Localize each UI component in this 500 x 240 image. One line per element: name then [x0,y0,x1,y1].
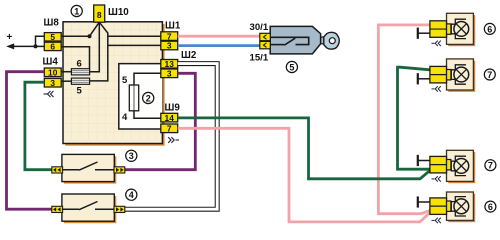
svg-text:Ш2: Ш2 [181,50,197,61]
lamp 6 bottom: bulb circle [454,199,469,214]
relay 4 left connector [52,206,63,212]
svg-text:30/1: 30/1 [250,22,269,33]
lamp 7 top: circle label 7 [484,69,495,80]
svg-text:8: 8 [97,10,102,20]
wire green Sh9-14 to right lamp low beam [178,118,430,179]
lamp 6 top: low beam icon [432,41,441,46]
lamp 6 bottom: housing [447,192,474,220]
lamp 6 top: connector tab [446,24,451,34]
lamp 7 top: connector tab [446,70,451,80]
relay 4 right connector [114,206,125,212]
wire pink top lamp A feed [378,25,430,214]
battery arrowhead [6,43,14,49]
wire purple relay3 to Sh2-3 [125,73,195,169]
svg-text:3: 3 [129,151,134,161]
svg-text:+: + [7,32,13,43]
lamp 7 bottom: ground lead [418,160,431,162]
component 4 circle label [126,189,137,200]
lamp 6 bottom: low beam icon [432,218,441,223]
relay 4 shadow [64,196,116,223]
high beam icon near Sh9 [168,137,179,143]
connector pin Sh1-7 [161,32,178,41]
wire Sh2 pin3 to fuse2 top [134,73,162,85]
connector pin Sh10-8 [94,5,105,22]
wire pin8 down to fuse6 [90,22,100,71]
svg-text:2: 2 [146,93,151,103]
wire fuse2 bottom to pin14 [134,111,162,118]
relay 3 shadow [64,156,116,183]
svg-text:5: 5 [289,62,294,72]
ignition terminal 15/1 [260,41,271,48]
lamp 6 top: bulb holder [451,19,466,38]
connector pin Sh2-13 [161,60,178,69]
lamp 7 top: bulb circle [454,67,469,82]
lamp 6 top: bulb circle [454,22,469,37]
svg-text:5: 5 [77,86,83,97]
svg-text:4: 4 [122,112,128,123]
lamp 7 top: bulb X [456,69,466,79]
junction dot [88,34,92,38]
lamp 6 top: housing [447,13,474,44]
key hole [329,38,335,44]
svg-text:3: 3 [167,41,172,51]
svg-text:Ш4: Ш4 [43,57,59,68]
connector pin Sh8-5 [44,33,61,41]
wire junction to pin8 diagonal [90,22,100,36]
ignition switch key [324,32,339,49]
ignition switch 5 body [270,26,320,54]
relay 3 contact [62,162,114,170]
component 5 circle label [286,61,297,72]
relay 3 left connector [52,167,63,173]
wire green Sh4-3 to relay3 [25,82,53,170]
mounting block 1 body [63,22,162,144]
component 1 circle label [71,5,82,16]
svg-text:6: 6 [77,59,82,70]
lamp 7 bottom: connector tab [446,160,451,170]
svg-text:Ш1: Ш1 [165,21,181,32]
lamp 6 bottom: housing shadow [448,194,475,222]
wire branch to pin7 Sh1 [108,35,162,37]
connector pin Sh9-7 [161,124,178,133]
relay 4 body [62,194,114,221]
svg-text:6: 6 [50,41,55,51]
lamp 6 bottom: connector [430,198,447,215]
svg-text:15/1: 15/1 [250,53,269,64]
svg-text:7: 7 [167,124,172,134]
svg-text:6: 6 [488,202,493,212]
mounting block 1 shadow [65,24,164,146]
lamp 7 bottom: housing shadow [448,152,475,183]
svg-text:5: 5 [122,75,128,86]
lamp 7 top: ground bar [417,73,419,84]
svg-text:7: 7 [488,161,493,171]
connector pin Sh4-3 [44,78,61,87]
lamp 6 top: bulb X [456,24,466,34]
svg-text:10: 10 [48,68,58,78]
lamp 7 top: low beam icon [432,86,441,91]
svg-text:5: 5 [50,32,55,42]
wire blue Sh1-3 to ignition 15/1 [178,44,261,47]
connector pin Sh8-6 [44,42,61,50]
wire pin3 Sh4 to fuse5 left [61,80,71,82]
lamp 6 bottom: connector tab [446,201,451,211]
lamp 6 top: ground lead [418,32,431,34]
svg-text:Ш10: Ш10 [108,7,129,18]
lamp 7 bottom: bulb circle [454,159,469,174]
wire green top lamp B feed [398,67,430,169]
svg-text:1: 1 [74,6,79,16]
wire pin8 right branch to Sh1 pins and fuse5 [90,22,108,81]
lamp 7 bottom: low beam icon [432,176,441,181]
wire battery arrow [10,36,46,46]
svg-text:3: 3 [50,78,55,88]
relay 3 right connector [114,167,125,173]
wire purple Sh4-10 to relay4 [7,72,54,210]
lamp 7 bottom: connector [430,156,447,173]
lamp 6 bottom: bulb holder [451,197,466,216]
svg-text:6: 6 [487,24,492,34]
wire pin10 to fuse6 left [61,71,71,73]
lamp 7 top: housing shadow [448,61,475,92]
lamp 7 top: connector [430,66,447,83]
lamp 6 top: ground bar [417,28,419,39]
svg-text:14: 14 [165,113,175,123]
relay 3 body [62,154,114,181]
lamp 6 top: circle label 6 [484,23,495,34]
lamp 6 bottom: circle label 6 [485,201,496,212]
wire branch to pin3 Sh1 [108,44,162,46]
lamp 6 top: connector [430,21,447,38]
lamp 7 bottom: circle label 7 [485,160,496,171]
connector pin Sh2-3 [161,69,178,78]
lamp 6 top: housing shadow [448,15,475,46]
lamp 6 bottom: ground bar [417,196,419,207]
svg-text:7: 7 [487,70,492,80]
svg-text:3: 3 [167,69,172,79]
fuse 2 vertical [129,85,138,111]
low beam icon near Sh4 [44,91,54,97]
wire pink Sh1-7 to ignition 30/1 [178,35,261,38]
svg-text:13: 13 [165,59,175,69]
lamp 7 top: ground lead [418,78,431,80]
relay 4 contact [62,202,114,210]
ignition switch 5 neck [319,37,326,44]
ignition contact drawing [269,37,309,45]
fuse F6 [71,69,89,75]
junction dot node [34,44,38,48]
ignition terminal 30/1 [260,33,271,40]
lamp 7 top: bulb holder [451,65,466,84]
wire pink Sh9-7 to right lamp high beam [178,128,430,222]
svg-text:Ш8: Ш8 [44,18,60,29]
wire pin5 to junction [61,35,89,37]
lamp 7 bottom: ground bar [417,155,419,166]
relay module area white zone [119,64,163,129]
wire white relay4 to Sh2-13 core [125,64,217,210]
connector pin Sh1-3 [161,41,178,50]
lamp 7 bottom: bulb X [456,161,466,171]
wire Sh2 pin13 loop to Sh9 pin7 [119,64,162,129]
connector pin Sh4-10 [44,68,61,77]
component 2 circle label [143,92,154,103]
wire pin6 to fuse6 right [61,47,89,70]
svg-text:4: 4 [129,190,134,200]
fuse F5 [71,78,89,84]
lamp 7 bottom: housing [447,150,474,181]
connector pin Sh9-14 [161,113,178,122]
component 3 circle label [126,150,137,161]
lamp 7 bottom: bulb holder [451,156,466,175]
wire white relay4 to Sh2-13 outline [125,64,217,210]
lamp 7 top: housing [447,59,474,90]
lamp 6 bottom: bulb X [456,201,466,211]
svg-text:Ш9: Ш9 [165,103,181,114]
lamp 6 bottom: ground lead [418,201,431,203]
